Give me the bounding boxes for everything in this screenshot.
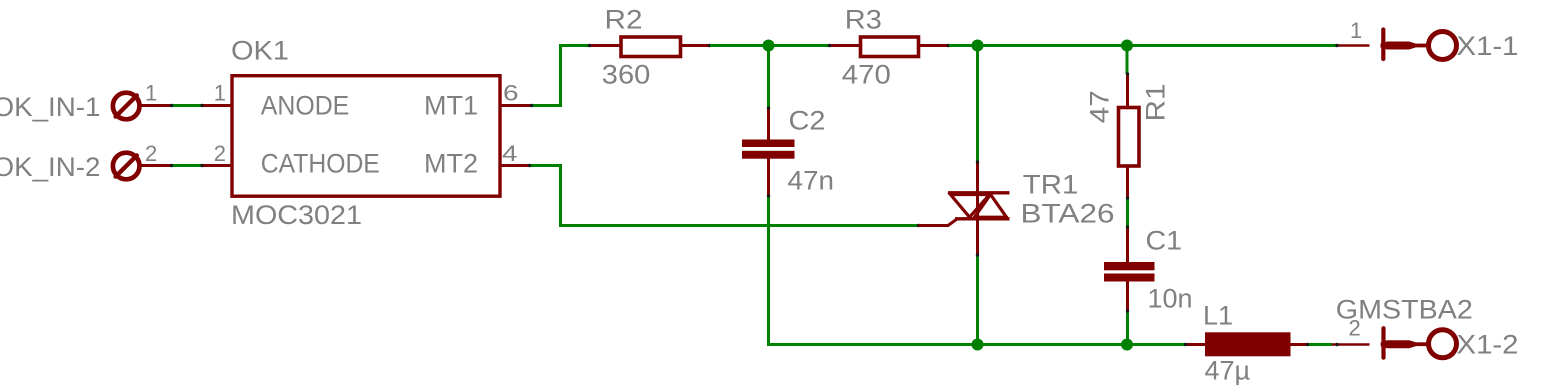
wire pin4 down then right to TR1 gate bbox=[559, 164, 920, 227]
svg-text:4: 4 bbox=[502, 141, 518, 166]
svg-text:C2: C2 bbox=[789, 106, 826, 136]
svg-text:6: 6 bbox=[503, 81, 519, 106]
svg-text:OK1: OK1 bbox=[231, 36, 289, 66]
svg-text:2: 2 bbox=[1349, 316, 1361, 341]
terminal OK_IN-1 bbox=[113, 93, 140, 120]
wire R3 to TR1 top junction bbox=[949, 44, 1128, 47]
terminal OK_IN-2 bbox=[113, 153, 140, 180]
wire pin6 up to top rail bbox=[559, 44, 562, 107]
junction node (C1 bottom) bbox=[1121, 339, 1133, 351]
junction node (top, C2 tap) bbox=[763, 40, 775, 52]
svg-text:TR1: TR1 bbox=[1023, 170, 1078, 200]
svg-text:R1: R1 bbox=[1141, 84, 1171, 122]
wire R2 to junction to R3 bbox=[710, 44, 830, 47]
svg-text:L1: L1 bbox=[1203, 301, 1233, 331]
OK1 pin 4 wire bbox=[501, 164, 562, 167]
svg-text:ANODE: ANODE bbox=[261, 91, 350, 121]
svg-text:X1-1: X1-1 bbox=[1457, 31, 1519, 61]
svg-text:R2: R2 bbox=[605, 4, 643, 34]
svg-text:2: 2 bbox=[145, 141, 157, 166]
top rail wire left segment bbox=[559, 44, 590, 47]
svg-text:OK_IN-2: OK_IN-2 bbox=[0, 152, 100, 182]
inductor L1 bbox=[1184, 332, 1332, 356]
svg-text:MOC3021: MOC3021 bbox=[231, 200, 362, 230]
svg-text:2: 2 bbox=[214, 141, 226, 166]
svg-text:47n: 47n bbox=[788, 166, 835, 196]
svg-text:OK_IN-1: OK_IN-1 bbox=[0, 92, 100, 122]
capacitor C2 bbox=[742, 46, 795, 347]
capacitor C1 bbox=[1104, 225, 1155, 346]
wire OK_IN-1 to OK1 pin 1 bbox=[141, 104, 233, 107]
svg-text:MT1: MT1 bbox=[424, 91, 478, 121]
resistor R2 bbox=[588, 37, 711, 57]
svg-text:47: 47 bbox=[1085, 90, 1115, 123]
junction node (R1 top) bbox=[1121, 40, 1133, 52]
svg-text:1: 1 bbox=[214, 81, 226, 106]
svg-text:C1: C1 bbox=[1146, 226, 1183, 256]
junction node (TR1 top) bbox=[972, 40, 984, 52]
svg-text:R3: R3 bbox=[845, 5, 882, 35]
svg-text:360: 360 bbox=[602, 60, 651, 90]
svg-text:47µ: 47µ bbox=[1205, 356, 1251, 386]
junction node (TR1 bottom) bbox=[972, 339, 984, 351]
terminal X1-1 bbox=[1335, 30, 1456, 60]
opto-triac OK1 body bbox=[232, 76, 500, 197]
svg-text:CATHODE: CATHODE bbox=[261, 149, 380, 179]
svg-text:1: 1 bbox=[1350, 18, 1362, 43]
svg-text:X1-2: X1-2 bbox=[1457, 330, 1519, 360]
svg-text:1: 1 bbox=[145, 81, 157, 106]
svg-text:470: 470 bbox=[842, 60, 891, 90]
svg-text:10n: 10n bbox=[1148, 284, 1193, 314]
bottom rail wire bbox=[767, 343, 1186, 346]
resistor R1 bbox=[1119, 46, 1140, 229]
resistor R3 bbox=[828, 37, 950, 57]
top rail wire to X1-1 bbox=[1127, 44, 1337, 47]
svg-text:BTA26: BTA26 bbox=[1021, 199, 1115, 229]
wire OK_IN-2 to OK1 pin 2 bbox=[141, 164, 233, 167]
triac TR1 bbox=[919, 46, 1010, 347]
terminal X1-2 bbox=[1332, 328, 1457, 358]
svg-text:MT2: MT2 bbox=[424, 149, 478, 179]
OK1 pin 6 wire bbox=[501, 104, 562, 107]
